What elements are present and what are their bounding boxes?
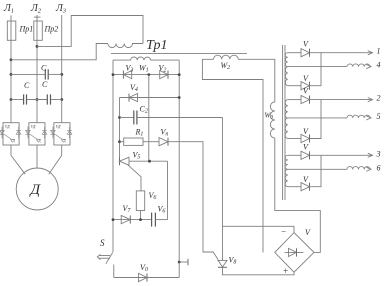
wire V4 row y97.5 xyxy=(120,97,180,99)
wire C2 row right to V8 branch xyxy=(137,117,223,119)
secondary group 2: winding b xyxy=(285,118,288,139)
wire group 3 diode join xyxy=(310,155,322,186)
wire right vertical bus x179 xyxy=(178,60,180,277)
node R1 tap xyxy=(118,140,121,143)
wire module1 to motor xyxy=(11,145,25,174)
node V4 row on right bus xyxy=(178,96,181,99)
capacitor C2 xyxy=(134,105,148,125)
svg-text:VД: VД xyxy=(5,125,10,129)
wire cap row 1 left segment xyxy=(11,73,45,75)
gate terminal stub xyxy=(179,261,188,263)
resistor R1 xyxy=(120,128,144,146)
capacitor C (Л1-Л2) xyxy=(23,94,25,104)
svg-text:VД: VД xyxy=(56,125,61,129)
wire cap row 1 right segment xyxy=(48,73,62,75)
wire left vertical bus x113 xyxy=(112,60,114,252)
secondary group 2: winding a xyxy=(285,100,288,118)
resistor V6 xyxy=(136,191,156,220)
transformer core xyxy=(282,45,284,200)
svg-text:С: С xyxy=(41,64,47,73)
node on Л1 feeding Тр1 primary xyxy=(10,58,13,61)
wire cap row 2 segment a xyxy=(11,99,24,101)
bridge rectifier V xyxy=(275,227,314,277)
wire bridge plus rail xyxy=(223,267,295,275)
wire phase line Л1 xyxy=(10,15,12,122)
wire group 1 diode join xyxy=(310,53,322,86)
wire W3 bottom lead to bridge AC2 xyxy=(275,138,321,252)
diode V (lower, group 3) xyxy=(288,175,310,191)
wire Л1 to Тр1 primary left end xyxy=(11,44,108,60)
node gate stub on right bus xyxy=(178,261,181,264)
wire cap V6 to corner xyxy=(155,219,167,221)
wire output 3 with arrow xyxy=(310,149,381,158)
transformer Тр1 primary winding xyxy=(108,44,143,48)
wire module2 to motor xyxy=(36,145,38,168)
node row2 on Л3 xyxy=(60,98,63,101)
node W1 box left xyxy=(112,73,115,76)
Тр1 separator line xyxy=(111,53,247,55)
wire centre tap output 4 with choke xyxy=(288,61,381,70)
diode V0 xyxy=(139,263,148,282)
fuse Пр2 xyxy=(34,21,43,40)
diode V (output 1) xyxy=(288,40,310,57)
motor Д xyxy=(16,168,58,210)
diode V4 xyxy=(129,83,138,102)
svg-text:С: С xyxy=(24,81,30,90)
wire rectifier row y74.6 xyxy=(113,74,179,76)
diode V3 xyxy=(123,64,133,79)
thyristor module VD1 (phase Л1) xyxy=(0,123,21,145)
svg-text:3: 3 xyxy=(376,149,381,158)
thyristor module VD5 (phase Л3) xyxy=(51,123,72,145)
node row1 on Л1 xyxy=(10,73,13,76)
node row2 on Л1 xyxy=(10,98,13,101)
svg-text:2: 2 xyxy=(377,94,381,103)
node row2 on Л2 xyxy=(36,98,39,101)
wire V7 row y219.6 xyxy=(113,219,152,221)
node row1 on Л3 xyxy=(60,73,63,76)
secondary group 1: winding b xyxy=(285,67,287,86)
wire centre tap vertical xyxy=(148,75,150,162)
wire Л2 to Тр1 primary right end xyxy=(37,16,143,47)
wire V5 row corner down xyxy=(167,161,169,219)
svg-text:С: С xyxy=(42,80,48,89)
wire inner vertical x119.5 xyxy=(119,98,121,162)
node C2 tap xyxy=(118,116,121,119)
diode V (output 2) xyxy=(288,87,310,104)
capacitor C (Л2-Л3) xyxy=(46,94,48,104)
svg-text:−: − xyxy=(281,227,287,237)
wire output 2 with arrow xyxy=(310,94,381,103)
svg-text:Пр2: Пр2 xyxy=(44,25,59,34)
diode V (output 3) xyxy=(288,142,310,159)
wire centre tap output 6 with choke xyxy=(288,163,381,172)
wire centre tap output 5 with choke xyxy=(288,112,381,121)
node V7 row on left bus xyxy=(112,218,115,221)
svg-text:Пр1: Пр1 xyxy=(19,25,34,34)
wire W2 right lead to W3 xyxy=(238,59,275,102)
wire module3 to motor xyxy=(49,145,62,174)
winding W2 xyxy=(214,55,239,59)
wire R1 to Vп xyxy=(143,141,159,143)
svg-text:VД: VД xyxy=(61,139,66,143)
winding W3 xyxy=(270,102,275,138)
svg-text:S: S xyxy=(100,238,105,248)
wire cap row 2 segment c xyxy=(51,99,62,101)
svg-text:VД: VД xyxy=(31,125,36,129)
diode V7 xyxy=(121,204,131,224)
diode V2 xyxy=(159,64,169,79)
wire V5 row y161.2 xyxy=(129,160,168,162)
thyristor V5 xyxy=(120,151,142,191)
wire output 1 with arrow xyxy=(310,47,381,56)
svg-text:Д: Д xyxy=(29,182,42,198)
wire bottom rail y277.5 xyxy=(114,277,179,279)
svg-text:VД: VД xyxy=(10,139,15,143)
secondary group 3: winding b xyxy=(285,169,288,186)
wire C2 row left xyxy=(120,117,134,119)
diode V (lower, group 2) xyxy=(288,127,310,143)
secondary group 3: winding a xyxy=(285,155,288,169)
wire bridge minus to V8 anode branch xyxy=(223,226,295,232)
thyristor V8 xyxy=(218,118,236,268)
diode V (lower, group 1) xyxy=(288,74,310,90)
thyristor module VD3 (phase Л2) xyxy=(26,123,47,145)
svg-text:Тр1: Тр1 xyxy=(146,38,167,53)
svg-text:6: 6 xyxy=(377,163,381,172)
svg-text:VД: VД xyxy=(36,139,41,143)
svg-text:1: 1 xyxy=(377,47,381,56)
wire group 2 diode join xyxy=(310,100,322,139)
wire cap row 2 segment b xyxy=(27,99,48,101)
terminal tick on line Л2 xyxy=(34,16,41,18)
wire W2 left lead to bridge AC1 xyxy=(202,59,263,252)
wire phase line Л3 xyxy=(61,15,63,123)
switch S xyxy=(97,238,114,278)
capacitor V6 xyxy=(152,205,166,227)
node V6 resistor to V7 row xyxy=(139,218,142,221)
diode Vп xyxy=(159,128,168,146)
secondary group 1: winding a xyxy=(285,53,288,67)
node centre tap to V5 row xyxy=(148,160,151,163)
capacitor C (Л1-Л3) xyxy=(44,69,46,79)
node W1 centre tap xyxy=(147,73,150,76)
winding W1 (Тр1 secondary) with leads xyxy=(113,57,179,60)
svg-text:5: 5 xyxy=(377,112,381,121)
fuse Пр1 xyxy=(7,21,16,40)
wire phase line Л2 xyxy=(36,15,38,123)
node on Л2 feeding Тр1 primary xyxy=(36,45,39,48)
wire Vп output to V8 gate branch xyxy=(168,142,218,260)
node W1 box right xyxy=(178,73,181,76)
svg-text:4: 4 xyxy=(377,61,381,70)
